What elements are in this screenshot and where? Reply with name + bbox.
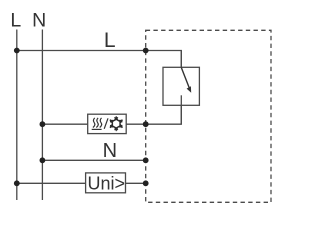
svg-text:Uni>: Uni> (88, 174, 126, 194)
svg-text:N: N (32, 10, 46, 32)
svg-text:L: L (104, 29, 116, 52)
svg-text:N: N (103, 140, 117, 162)
svg-text:L: L (10, 10, 21, 32)
